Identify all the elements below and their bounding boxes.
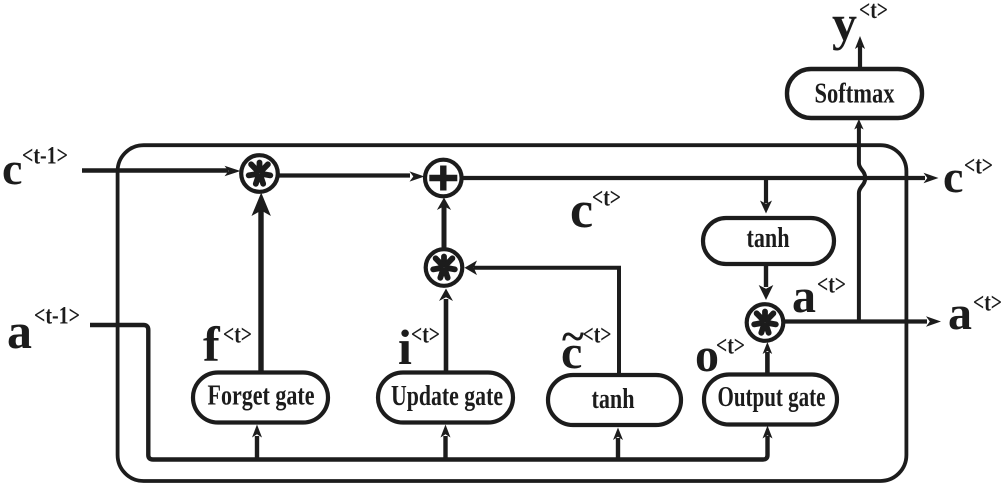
multiply op M1 (circled asterisk) xyxy=(241,155,278,192)
svg-text:a: a xyxy=(792,270,816,323)
svg-text:f: f xyxy=(203,316,221,372)
svg-text:<t>: <t> xyxy=(583,322,612,349)
node c~<t> label xyxy=(561,315,612,380)
node c<t-1> label xyxy=(2,143,68,195)
svg-text:c: c xyxy=(943,151,963,202)
node f<t> label xyxy=(203,316,252,372)
svg-text:<t>: <t> xyxy=(223,322,252,349)
node i<t> label xyxy=(398,319,440,375)
svg-text:i: i xyxy=(398,319,412,375)
svg-text:Output gate: Output gate xyxy=(718,382,826,413)
node a<t> inner label xyxy=(792,270,846,323)
svg-text:a: a xyxy=(948,287,972,340)
svg-text:<t>: <t> xyxy=(716,333,745,360)
wire c-in from c<t-1> to multiply M1 xyxy=(82,166,241,177)
node o<t> label xyxy=(695,329,745,382)
svg-text:Softmax: Softmax xyxy=(815,79,895,110)
rail branch arrow into tanh T1 xyxy=(613,428,623,459)
svg-text:<t>: <t> xyxy=(411,322,440,349)
add op A1 (circled plus) xyxy=(425,160,462,197)
Forget gate box xyxy=(193,373,328,423)
svg-text:tanh: tanh xyxy=(592,384,635,415)
Softmax box U1 xyxy=(787,69,922,118)
node a<t-1> label xyxy=(7,303,80,360)
wire a<t-1> input rail along bottom xyxy=(90,325,768,460)
svg-text:a: a xyxy=(7,303,32,359)
wire M1 to add A1 xyxy=(278,171,425,181)
node y<t> label xyxy=(832,0,888,51)
svg-text:c: c xyxy=(2,143,22,194)
node c<t> mid label xyxy=(570,182,621,239)
wire T2 to multiply M3 xyxy=(759,264,774,300)
svg-text:y: y xyxy=(832,0,857,51)
svg-text:Update gate: Update gate xyxy=(391,381,503,412)
svg-text:c: c xyxy=(570,182,593,239)
wire tanh T1 to M2 xyxy=(465,261,620,375)
wire Forget gate to M1 xyxy=(252,193,271,372)
Output gate box xyxy=(704,375,837,425)
node a<t> right label xyxy=(948,287,1002,340)
wire c-out from A1 to c<t> xyxy=(462,173,939,183)
multiply op M3 (circled asterisk) xyxy=(747,304,784,341)
rail arrow into Output gate xyxy=(763,426,773,439)
multiply op M2 (circled asterisk) xyxy=(426,249,463,286)
svg-text:<t>: <t> xyxy=(964,153,993,180)
wire Softmax to y<t> xyxy=(855,36,865,68)
svg-text:<t>: <t> xyxy=(973,290,1002,317)
svg-text:tanh: tanh xyxy=(747,223,790,254)
tanh box T2 (right) xyxy=(703,218,834,264)
svg-text:<t-1>: <t-1> xyxy=(34,303,80,330)
svg-text:<t>: <t> xyxy=(592,185,621,212)
svg-text:<t>: <t> xyxy=(859,0,888,24)
wire Update gate to M2 xyxy=(439,289,453,373)
LSTM cell outer box xyxy=(118,145,907,481)
node c<t> right label xyxy=(943,151,993,202)
Update gate box xyxy=(378,373,513,423)
wire Output gate to M3 xyxy=(763,342,773,374)
tanh box T1 (bottom) xyxy=(548,375,681,425)
wire a-out from M3 to a<t> xyxy=(783,316,941,326)
rail branch arrow into Update gate xyxy=(441,425,451,459)
wire riser a-line to Softmax with hop over c-line xyxy=(854,119,865,322)
wire branch from c-line down to tanh T2 xyxy=(760,180,772,214)
wire M2 to A1 xyxy=(437,198,451,249)
svg-text:Forget gate: Forget gate xyxy=(208,381,315,412)
svg-text:<t-1>: <t-1> xyxy=(22,143,68,170)
rail branch arrow into Forget gate xyxy=(252,425,262,459)
svg-text:<t>: <t> xyxy=(817,272,846,299)
svg-text:~: ~ xyxy=(562,315,584,361)
